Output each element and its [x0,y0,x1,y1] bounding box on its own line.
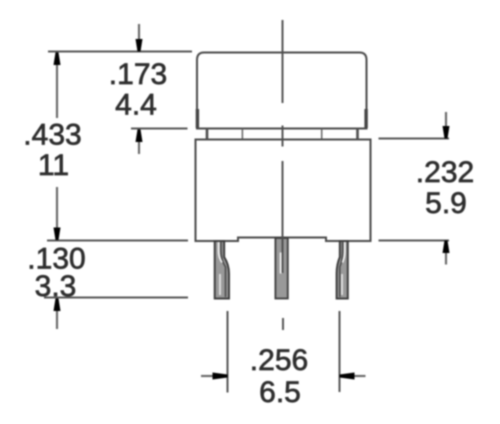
svg-text:4.4: 4.4 [115,89,157,122]
svg-text:.173: .173 [109,58,167,91]
svg-text:5.9: 5.9 [425,187,467,220]
svg-text:6.5: 6.5 [259,376,301,409]
svg-text:3.3: 3.3 [35,270,77,303]
svg-text:.433: .433 [23,119,81,152]
svg-text:.256: .256 [250,344,308,377]
svg-text:11: 11 [38,149,69,182]
svg-text:.232: .232 [416,156,474,189]
